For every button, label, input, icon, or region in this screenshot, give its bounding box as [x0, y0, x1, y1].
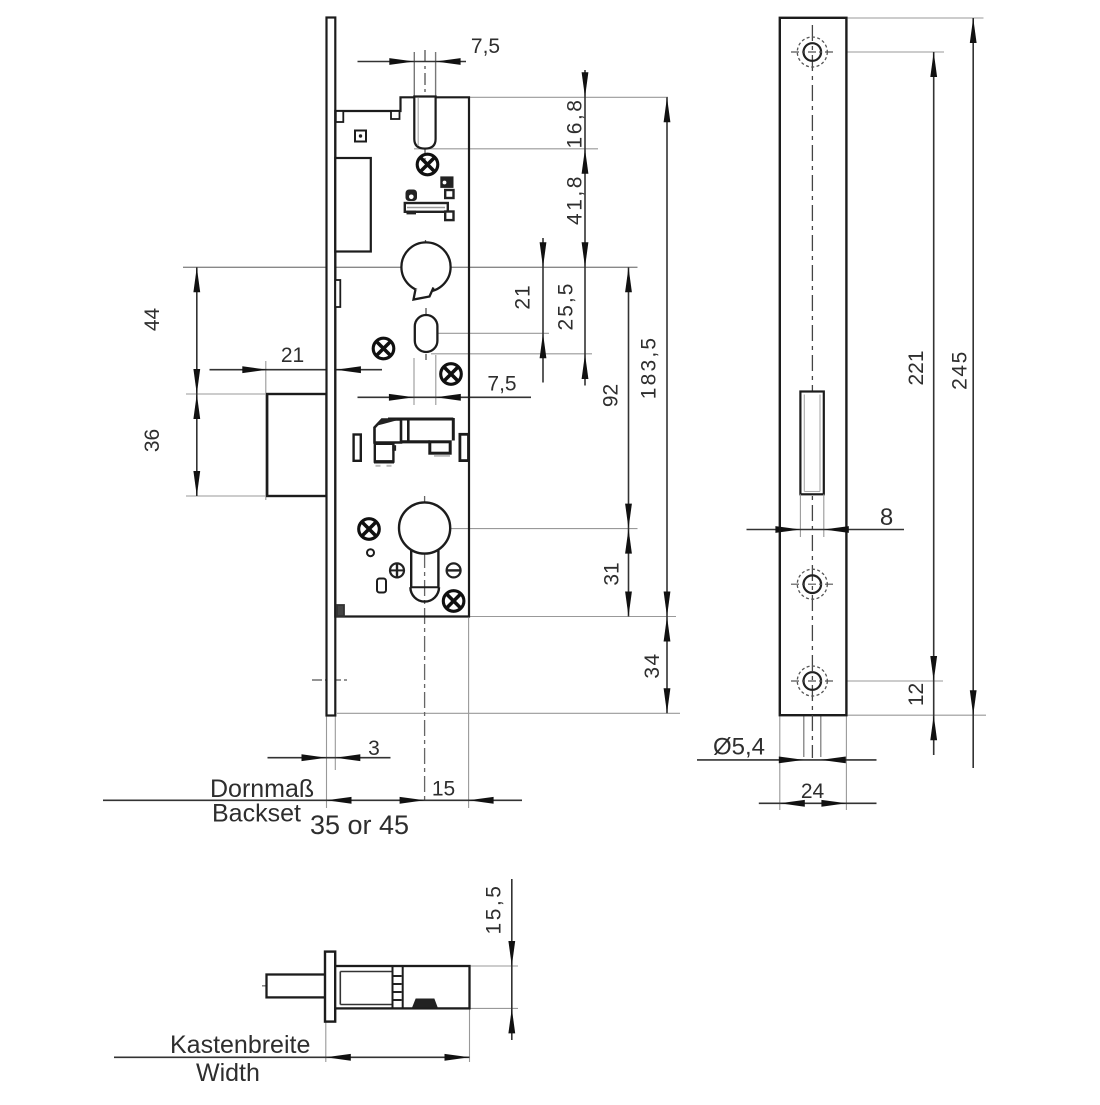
svg-text:7,5: 7,5	[471, 35, 500, 58]
svg-text:183,5: 183,5	[638, 336, 661, 400]
svg-text:31: 31	[601, 562, 624, 585]
svg-text:15,5: 15,5	[483, 884, 506, 935]
svg-text:Backset: Backset	[212, 800, 301, 828]
svg-text:25,5: 25,5	[555, 282, 578, 331]
svg-text:Ø5,4: Ø5,4	[713, 734, 765, 761]
svg-text:34: 34	[641, 652, 664, 678]
svg-text:221: 221	[905, 350, 928, 385]
svg-text:35 or 45: 35 or 45	[310, 810, 409, 840]
svg-text:Kastenbreite: Kastenbreite	[170, 1031, 310, 1059]
svg-text:44: 44	[141, 308, 164, 332]
svg-text:92: 92	[600, 384, 623, 407]
svg-text:21: 21	[281, 344, 304, 367]
svg-text:8: 8	[880, 504, 893, 531]
svg-text:24: 24	[801, 780, 825, 803]
svg-text:245: 245	[949, 350, 972, 390]
svg-text:36: 36	[141, 429, 164, 452]
svg-text:Width: Width	[196, 1059, 260, 1087]
svg-text:12: 12	[905, 683, 928, 706]
svg-text:15: 15	[432, 778, 455, 801]
svg-text:41,8: 41,8	[564, 174, 587, 225]
svg-text:7,5: 7,5	[487, 373, 516, 396]
svg-text:16,8: 16,8	[564, 98, 587, 149]
svg-text:3: 3	[368, 737, 380, 760]
svg-text:21: 21	[512, 284, 535, 309]
